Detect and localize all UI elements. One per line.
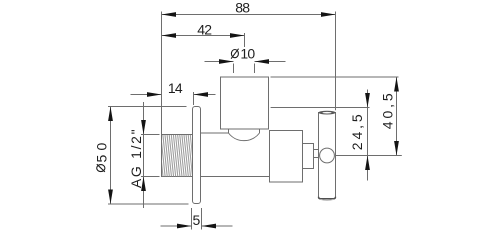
42 left bbox=[162, 33, 177, 38]
5 left bbox=[177, 224, 192, 229]
svg-text:10: 10 bbox=[240, 46, 255, 62]
wire extension of 40,5 (cap top prolongation) bbox=[271, 76, 399, 78]
40,5 top bbox=[394, 77, 399, 92]
dimension line 42 bbox=[162, 35, 245, 37]
thread AG 1/2 outline bbox=[162, 134, 193, 136]
handle bar top rim (dark band) bbox=[319, 111, 336, 115]
40,5 bottom bbox=[394, 141, 399, 156]
14 left bbox=[147, 92, 162, 97]
rosette flange bbox=[193, 107, 201, 204]
D10 left bbox=[219, 59, 234, 64]
valve inlet pipe bbox=[201, 132, 229, 134]
svg-text:40,5: 40,5 bbox=[379, 90, 395, 129]
spoke stubs bbox=[314, 149, 322, 151]
wire center line of handle bbox=[335, 155, 402, 157]
valve cap (top square) bbox=[221, 77, 269, 129]
svg-text:42: 42 bbox=[197, 22, 212, 38]
D50 top bbox=[108, 107, 113, 122]
svg-text:5: 5 bbox=[193, 212, 201, 228]
dimension line 88 bbox=[162, 14, 336, 16]
svg-text:24,5: 24,5 bbox=[349, 111, 365, 150]
wire extension of 42 bbox=[244, 33, 246, 47]
wire extensions of D50 bbox=[108, 106, 187, 108]
wire extension lines of D10 bbox=[233, 64, 235, 74]
dimension line D10 bbox=[205, 61, 234, 63]
14 right bbox=[194, 92, 209, 97]
svg-text:50: 50 bbox=[94, 139, 110, 163]
dimension texts bbox=[168, 0, 255, 228]
arrowheads bbox=[108, 12, 399, 228]
dimension line 5 bbox=[161, 225, 192, 227]
handle bar top rim inner lens bbox=[322, 112, 331, 114]
D10 right bbox=[255, 59, 270, 64]
dimension line 14 bbox=[131, 94, 162, 96]
label D10 diameter glyph bbox=[231, 49, 239, 59]
handle front spoke ball bbox=[320, 148, 335, 163]
svg-text:AG 1/2": AG 1/2" bbox=[128, 128, 144, 188]
cartridge block bbox=[270, 131, 303, 183]
dimension line 40,5 bbox=[396, 77, 398, 156]
dome under cap bbox=[228, 129, 230, 133]
5 right bbox=[202, 224, 217, 229]
D50 bottom bbox=[108, 190, 113, 205]
dimension line 24,5 bbox=[367, 90, 369, 181]
AG bottom bbox=[141, 177, 146, 192]
wire extension of 14 bbox=[193, 92, 195, 105]
wire extensions of AG 1/2 bbox=[141, 134, 160, 136]
dimension line AG 1/2 bbox=[143, 102, 145, 208]
AG top bbox=[141, 120, 146, 135]
svg-text:88: 88 bbox=[235, 0, 250, 15]
42 right bbox=[230, 33, 245, 38]
handle bar bottom heavier line bbox=[319, 197, 336, 199]
wire extension of 24,5 bbox=[271, 107, 370, 109]
svg-text:14: 14 bbox=[168, 80, 183, 96]
88 right bbox=[321, 12, 336, 17]
24,5 top bbox=[365, 93, 370, 108]
wire extensions of 5 bbox=[191, 208, 193, 230]
stem block bbox=[303, 144, 314, 169]
handle bar bottom faint rim arc bbox=[321, 198, 334, 201]
dimension line D50 bbox=[110, 107, 112, 205]
label D50 diameter glyph bbox=[97, 164, 105, 172]
88 left bbox=[162, 12, 177, 17]
handle bar bbox=[319, 113, 336, 199]
24,5 bottom bbox=[365, 156, 370, 171]
wire right extension of 88 bbox=[335, 12, 337, 111]
wire left datum extension line + thread end cap bbox=[161, 12, 163, 178]
